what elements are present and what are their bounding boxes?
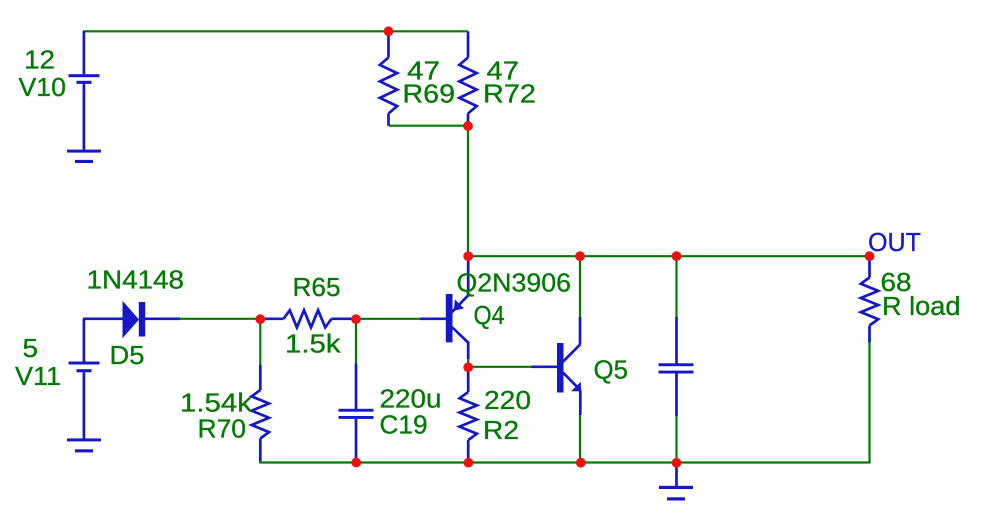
- wire R65 to Q4 base: [356, 318, 420, 320]
- resistor R69: [380, 31, 397, 125]
- resistor R65: [260, 310, 356, 327]
- junction D5/R65/R70: [255, 314, 265, 324]
- svg-text:V11: V11: [15, 363, 61, 391]
- resistor R load: [861, 257, 878, 343]
- wire R69 bottom to R72 bottom: [389, 125, 469, 127]
- junction V10/R69 top rail: [384, 26, 394, 36]
- svg-text:OUT: OUT: [868, 229, 921, 257]
- svg-text:1N4148: 1N4148: [87, 267, 185, 295]
- resistor R70: [252, 365, 269, 462]
- svg-text:12: 12: [24, 47, 55, 75]
- svg-text:D5: D5: [110, 342, 145, 370]
- svg-text:220: 220: [484, 387, 531, 415]
- svg-text:5: 5: [23, 335, 39, 363]
- wire Q5 collector to OUT rail: [579, 256, 581, 317]
- junction Q4 collector/R2/Q5 base: [463, 362, 473, 372]
- junction R69/R72 bottom: [463, 121, 473, 131]
- junction C19 bottom rail: [351, 458, 361, 468]
- wire node to C19 top: [355, 319, 357, 364]
- ground (below V10): [67, 150, 101, 163]
- junction OUT / R load: [865, 251, 875, 261]
- svg-text:Q4: Q4: [474, 302, 505, 330]
- wire R load down right edge: [868, 342, 870, 463]
- junction Q5 emitter bottom rail: [576, 458, 586, 468]
- wire bottom rail: [259, 461, 870, 463]
- svg-text:R load: R load: [882, 293, 961, 321]
- wire output cap top: [675, 256, 677, 318]
- junction R65/C19/Q4 base: [351, 314, 361, 324]
- svg-text:R2: R2: [483, 417, 519, 445]
- wire node to R70 top: [259, 319, 261, 366]
- resistor R72: [459, 31, 476, 125]
- wire Q5 emitter down to bottom rail: [579, 415, 581, 463]
- svg-text:Q5: Q5: [594, 357, 629, 385]
- wire R72 bottom down to OUT rail: [467, 126, 469, 257]
- junction R72/Q4 emitter on OUT rail: [463, 251, 473, 261]
- svg-text:R69: R69: [403, 81, 456, 109]
- output capacitor: [659, 317, 694, 416]
- resistor R2: [460, 367, 477, 462]
- junction output cap on OUT rail: [672, 251, 682, 261]
- wire Q5 base wire: [468, 366, 531, 368]
- junction R2 bottom rail: [464, 458, 474, 468]
- junction Q5 collector on OUT rail: [575, 251, 585, 261]
- junction output ground bottom rail: [672, 458, 682, 468]
- wire OUT rail: [468, 255, 870, 257]
- voltage source V11: [69, 319, 100, 439]
- wire top rail V10 to R69/R72: [83, 30, 468, 32]
- transistor Q5 (NPN): [532, 317, 581, 415]
- svg-text:R72: R72: [483, 81, 536, 109]
- wire output cap bottom: [675, 416, 677, 463]
- wire Q4 collector to Q5 base node: [467, 358, 469, 367]
- ground (output, below bottom rail): [659, 463, 693, 501]
- voltage source V10: [69, 31, 100, 150]
- capacitor C19: [339, 364, 374, 460]
- ground (below V11): [67, 438, 101, 452]
- svg-text:C19: C19: [380, 412, 428, 440]
- diode D5: [83, 301, 180, 338]
- svg-text:R65: R65: [293, 274, 341, 302]
- wire diode D5 to node R65/R70: [179, 318, 260, 320]
- svg-text:Q2N3906: Q2N3906: [457, 270, 572, 298]
- svg-text:220u: 220u: [380, 386, 442, 414]
- transistor Q4 (PNP 2N3906): [420, 258, 469, 359]
- svg-text:V10: V10: [19, 74, 67, 102]
- svg-text:1.5k: 1.5k: [285, 331, 341, 359]
- svg-text:1.54k: 1.54k: [180, 390, 252, 418]
- svg-text:R70: R70: [198, 416, 247, 444]
